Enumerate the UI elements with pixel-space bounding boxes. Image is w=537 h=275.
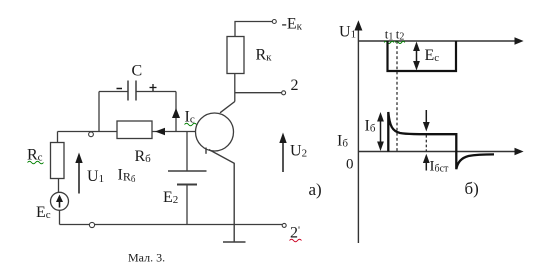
wire: capacitor branch top left [99, 91, 128, 93]
current arrow into Rб [155, 128, 165, 135]
resistor Rб [117, 121, 152, 139]
battery E2 short plate [177, 184, 197, 186]
Ec measure arrow [413, 42, 420, 71]
transistor emitter tick [205, 148, 207, 154]
wire: horizontal rail to Rб [58, 131, 118, 133]
wire: Rб right to transistor base [152, 131, 196, 133]
wire: collector junction to terminal 2 [235, 92, 282, 94]
svg-text:Rк: Rк [256, 47, 273, 64]
wire: E2 branch top [186, 132, 188, 172]
capacitor plus sign [150, 84, 157, 91]
down arrow to steady level [423, 110, 430, 132]
svg-text:t1: t1 [385, 26, 394, 42]
svg-text:б): б) [465, 179, 479, 198]
wire: Rc top to horizontal rail [57, 132, 59, 144]
resistor Rc [51, 143, 65, 179]
svg-text:Ес: Ес [36, 204, 51, 221]
node circle on mid rail [89, 132, 94, 137]
svg-text:Iб: Iб [337, 133, 348, 150]
transistor VT circle [196, 113, 234, 151]
wire: E2 branch bottom [186, 185, 188, 225]
wire: Rc bottom to Ec source [58, 179, 60, 193]
plot bottom time axis [358, 148, 523, 156]
Iб waveform [388, 112, 494, 169]
svg-text:0: 0 [346, 157, 354, 173]
svg-text:Мал. 3.: Мал. 3. [128, 251, 165, 265]
wire: Ec source to bottom rail [59, 210, 61, 224]
svg-text:С: С [132, 63, 143, 80]
wire: Rк top to -Eк rail [235, 22, 272, 37]
capacitor C plates [128, 81, 136, 101]
wire: capacitor branch top right [136, 91, 176, 93]
label 2' [290, 225, 302, 242]
U1 pulse waveform [388, 41, 457, 71]
svg-text:а): а) [309, 180, 322, 199]
dashed drop at Iбст [425, 135, 427, 151]
plot top time axis [358, 37, 523, 45]
svg-text:Iбст: Iбст [430, 159, 450, 175]
node circle on bottom rail [89, 222, 94, 227]
svg-text:U1: U1 [339, 24, 356, 41]
label t2 [395, 26, 405, 43]
capacitor minus sign [117, 88, 123, 90]
svg-text:IRб: IRб [118, 167, 136, 185]
voltage arrow U1 [75, 153, 82, 194]
wire: bottom rail [60, 224, 283, 226]
svg-text:Е2: Е2 [163, 189, 178, 206]
battery E2 long plate [168, 170, 207, 172]
svg-text:Rб: Rб [135, 148, 152, 165]
svg-text:U1: U1 [87, 168, 104, 185]
svg-text:-Ек: -Ек [282, 16, 303, 33]
svg-text:2: 2 [291, 77, 299, 94]
label t1 [384, 26, 394, 43]
svg-text:Ес: Ес [425, 47, 440, 64]
dashed line at t2 [396, 41, 398, 152]
transistor emitter lead [209, 150, 234, 225]
current arrow Iс [172, 108, 180, 118]
terminal -Eк [272, 20, 276, 24]
wire: capacitor branch left vertical [98, 92, 100, 132]
voltage arrow U2 [279, 133, 286, 173]
wire: Rк bottom to collector junction [234, 74, 236, 102]
terminal 2 [282, 91, 286, 95]
label Rc [27, 147, 44, 164]
transistor collector lead [220, 102, 235, 113]
label Iс [185, 109, 197, 126]
source Ec [51, 192, 69, 210]
svg-text:Iб: Iб [365, 118, 376, 135]
wire: capacitor branch right vertical [175, 92, 177, 132]
terminal 2' [282, 223, 286, 227]
resistor Rк [227, 37, 244, 74]
svg-text:t2: t2 [396, 26, 405, 42]
up arrow below axis [423, 154, 430, 171]
plot vertical axis U1/Iб [354, 20, 362, 243]
svg-text:U2: U2 [290, 143, 307, 160]
Iб measure arrow [377, 112, 384, 151]
ground [223, 225, 246, 243]
